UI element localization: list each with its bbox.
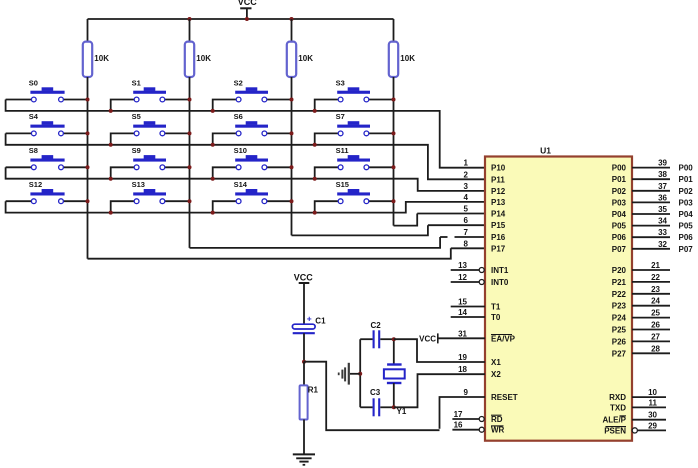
- pushbutton S2: [213, 78, 292, 111]
- svg-text:S2: S2: [234, 78, 243, 87]
- pin name P01: [612, 175, 627, 184]
- svg-text:P17: P17: [491, 244, 506, 253]
- pin name TXD: [610, 403, 626, 412]
- svg-text:S0: S0: [29, 78, 38, 87]
- pin 9 RESET lead: [440, 397, 486, 429]
- pushbutton S14: [213, 180, 292, 213]
- svg-text:7: 7: [464, 228, 469, 237]
- pin 21 lead: [632, 269, 670, 271]
- pin name WR: [491, 426, 505, 435]
- pin name P13: [491, 198, 506, 207]
- pin 23 lead: [632, 293, 670, 295]
- junction S11-column 4: [392, 165, 396, 169]
- svg-text:P13: P13: [491, 198, 506, 207]
- pushbutton S1: [111, 78, 190, 111]
- pin 36 number: [658, 193, 667, 202]
- junction S15 bus tap: [313, 211, 317, 215]
- pin 14 number: [458, 308, 467, 317]
- junction S2 bus tap: [211, 109, 215, 113]
- pin 31 EA/VP lead: [438, 337, 485, 339]
- pin name RD: [491, 415, 503, 424]
- pin 37 lead: [632, 190, 670, 192]
- svg-text:P14: P14: [491, 210, 506, 219]
- svg-text:S9: S9: [132, 146, 141, 155]
- net label P03: [679, 198, 694, 207]
- wire pin 5 lead: [417, 213, 485, 215]
- svg-text:P22: P22: [612, 290, 627, 299]
- pin 21 number: [651, 261, 660, 270]
- svg-text:S10: S10: [234, 146, 247, 155]
- svg-text:34: 34: [658, 217, 667, 226]
- pin 25 lead: [632, 317, 670, 319]
- wire row 2 bus to pin 2: [6, 133, 485, 179]
- wire column 3 vertical: [291, 77, 293, 235]
- svg-text:S5: S5: [132, 112, 141, 121]
- svg-text:16: 16: [454, 421, 463, 430]
- pin 14 T0 lead: [451, 316, 485, 318]
- pin 36 lead: [632, 201, 670, 203]
- svg-text:S8: S8: [29, 146, 38, 155]
- pin 33 lead: [632, 236, 670, 238]
- svg-text:Y1: Y1: [397, 407, 407, 416]
- net label P07: [679, 245, 694, 254]
- pin 29 number: [648, 421, 657, 430]
- junction S3 bus tap: [313, 109, 317, 113]
- svg-text:10K: 10K: [400, 54, 415, 63]
- svg-text:6: 6: [464, 216, 469, 225]
- pin 26 number: [651, 321, 660, 330]
- svg-text:S4: S4: [29, 112, 39, 121]
- svg-text:T1: T1: [491, 303, 501, 312]
- svg-text:P04: P04: [679, 210, 694, 219]
- pushbutton S5: [111, 112, 190, 145]
- junction S5-column 2: [188, 131, 192, 135]
- junction S9 bus tap: [109, 177, 113, 181]
- svg-text:19: 19: [458, 353, 467, 362]
- pin name P21: [612, 278, 627, 287]
- pin 22 number: [651, 273, 660, 282]
- IC U1 body (8051 MCU): [485, 146, 632, 441]
- pushbutton S9: [111, 146, 190, 179]
- svg-text:P16: P16: [491, 233, 506, 242]
- pin 27 number: [651, 332, 660, 341]
- svg-text:13: 13: [458, 261, 467, 270]
- svg-text:29: 29: [648, 421, 657, 430]
- resistor 10K (pull-up, column 4): [389, 19, 415, 77]
- svg-text:P06: P06: [612, 233, 627, 242]
- junction S9-column 2: [188, 165, 192, 169]
- svg-text:8: 8: [464, 239, 469, 248]
- svg-text:VCC: VCC: [294, 272, 314, 282]
- wire row 1 bus to pin 1: [6, 100, 485, 168]
- svg-text:1: 1: [464, 159, 469, 168]
- svg-text:P11: P11: [491, 175, 505, 184]
- ground (crystal network): [339, 363, 361, 385]
- svg-text:14: 14: [458, 308, 467, 317]
- svg-text:+: +: [307, 313, 312, 323]
- svg-text:3: 3: [464, 182, 469, 191]
- pin name P00: [612, 164, 627, 173]
- svg-text:27: 27: [651, 332, 660, 341]
- wire pin 6 lead: [428, 224, 485, 226]
- svg-text:RESET: RESET: [491, 393, 518, 402]
- svg-text:21: 21: [651, 261, 660, 270]
- junction S6-column 3: [290, 131, 294, 135]
- svg-text:12: 12: [458, 273, 467, 282]
- pin 17 number: [454, 410, 463, 419]
- svg-text:T0: T0: [491, 313, 501, 322]
- svg-text:S12: S12: [29, 180, 42, 189]
- pin 34 lead: [632, 225, 670, 227]
- junction S12-column 1: [86, 199, 90, 203]
- pin name P16: [491, 233, 506, 242]
- svg-text:36: 36: [658, 193, 667, 202]
- wire crystal left rail: [359, 339, 361, 407]
- pin 30 ALE/P lead: [632, 419, 666, 421]
- svg-text:15: 15: [458, 298, 467, 307]
- svg-text:33: 33: [658, 228, 667, 237]
- pin 3 number: [464, 182, 469, 191]
- pin 33 number: [658, 228, 667, 237]
- pin 35 number: [658, 205, 667, 214]
- svg-text:INT0: INT0: [491, 278, 509, 287]
- pin name P02: [612, 187, 627, 196]
- net label P05: [679, 222, 694, 231]
- svg-text:PSEN: PSEN: [604, 426, 626, 435]
- svg-text:P26: P26: [612, 337, 627, 346]
- svg-text:C2: C2: [371, 321, 382, 330]
- svg-text:32: 32: [658, 240, 667, 249]
- junction S11 bus tap: [313, 177, 317, 181]
- pin 38 number: [658, 170, 667, 179]
- svg-text:P25: P25: [612, 326, 627, 335]
- net label P02: [679, 187, 694, 196]
- pin name P26: [612, 337, 627, 346]
- resistor R1: [300, 362, 319, 455]
- pin 29 PSEN lead: [632, 428, 666, 433]
- wire row 4 bus to pin 4: [6, 201, 485, 212]
- resistor 10K (pull-up, column 1): [83, 19, 109, 77]
- pin 10 number: [648, 388, 657, 397]
- wire column 4 to pin 5: [394, 214, 418, 226]
- wire pin 7 lead (with gap): [440, 236, 485, 238]
- crystal Y1: [384, 339, 407, 416]
- junction S4-column 1: [86, 131, 90, 135]
- pin name RESET: [491, 393, 518, 402]
- svg-text:26: 26: [651, 321, 660, 330]
- pin name P10: [491, 164, 506, 173]
- pin 24 number: [651, 297, 660, 306]
- pin name P23: [612, 302, 627, 311]
- wire column 3 to pin 6: [292, 225, 428, 235]
- svg-text:28: 28: [651, 344, 660, 353]
- svg-text:VCC: VCC: [419, 334, 436, 343]
- resistor 10K (pull-up, column 2): [185, 19, 211, 77]
- power port VCC at pin 31: [419, 333, 438, 343]
- svg-text:P07: P07: [679, 245, 694, 254]
- pin name P07: [612, 245, 627, 254]
- pin 13 number: [458, 261, 467, 270]
- junction crystal ground tap: [358, 372, 362, 376]
- pin 19 number: [458, 353, 467, 362]
- pin name P27: [612, 349, 627, 358]
- svg-text:WR: WR: [491, 426, 505, 435]
- svg-text:P15: P15: [491, 221, 506, 230]
- svg-text:P01: P01: [612, 175, 627, 184]
- pin name RXD: [609, 393, 626, 402]
- svg-text:23: 23: [651, 285, 660, 294]
- pin name INT1: [491, 266, 509, 275]
- svg-text:VCC: VCC: [238, 0, 258, 7]
- pin name P04: [612, 210, 627, 219]
- junction crystal top node: [392, 337, 396, 341]
- svg-text:X1: X1: [491, 358, 501, 367]
- pin name P24: [612, 314, 627, 323]
- pin 28 number: [651, 344, 660, 353]
- svg-text:S1: S1: [132, 78, 141, 87]
- pin 37 number: [658, 182, 667, 191]
- svg-text:38: 38: [658, 170, 667, 179]
- pin 10 RXD lead: [632, 396, 666, 398]
- pin 27 lead: [632, 340, 670, 342]
- net label P06: [679, 233, 694, 242]
- svg-text:P27: P27: [612, 349, 627, 358]
- pin 31 number: [458, 329, 467, 338]
- junction S1-column 2: [188, 98, 192, 102]
- svg-text:P03: P03: [679, 198, 694, 207]
- wire crystal bottom node to pin 18 X2: [394, 374, 485, 407]
- svg-text:39: 39: [658, 159, 667, 168]
- junction S13 bus tap: [109, 211, 113, 215]
- svg-text:P01: P01: [679, 175, 694, 184]
- svg-text:30: 30: [648, 411, 657, 420]
- svg-text:10K: 10K: [298, 54, 313, 63]
- pin name P25: [612, 326, 627, 335]
- pin 18 number: [458, 365, 467, 374]
- svg-text:S7: S7: [336, 112, 345, 121]
- svg-text:10K: 10K: [196, 54, 211, 63]
- pin 32 number: [658, 240, 667, 249]
- junction S5 bus tap: [109, 143, 113, 147]
- junction S1 bus tap: [109, 109, 113, 113]
- junction rail-column3: [290, 17, 294, 21]
- junction S10 bus tap: [211, 177, 215, 181]
- pushbutton S10: [213, 146, 292, 179]
- pin 23 number: [651, 285, 660, 294]
- junction S7-column 4: [392, 131, 396, 135]
- svg-text:C3: C3: [370, 388, 381, 397]
- pin 2 number: [464, 170, 469, 179]
- pin 25 number: [651, 309, 660, 318]
- junction S8-column 1: [86, 165, 90, 169]
- pin 12 INT0 lead: [451, 280, 485, 285]
- pin name P03: [612, 198, 627, 207]
- junction S15-column 4: [392, 199, 396, 203]
- pin 8 number: [464, 239, 469, 248]
- pin 12 number: [458, 273, 467, 282]
- pin 7 number: [464, 228, 469, 237]
- svg-text:S13: S13: [132, 180, 145, 189]
- wire column 1 vertical: [87, 77, 89, 259]
- svg-text:P23: P23: [612, 302, 627, 311]
- pin 13 INT1 lead: [451, 268, 485, 273]
- pin 34 number: [658, 217, 667, 226]
- pin 6 number: [464, 216, 469, 225]
- pin name P20: [612, 266, 627, 275]
- pin 16 number: [454, 421, 463, 430]
- svg-text:X2: X2: [491, 370, 501, 379]
- svg-text:U1: U1: [540, 146, 551, 156]
- pin name P17: [491, 244, 506, 253]
- junction rail-column2: [188, 17, 192, 21]
- svg-text:INT1: INT1: [491, 266, 509, 275]
- svg-text:P00: P00: [679, 164, 694, 173]
- svg-text:P20: P20: [612, 266, 627, 275]
- svg-text:10: 10: [648, 388, 657, 397]
- junction S3-column 4: [392, 98, 396, 102]
- svg-text:RD: RD: [491, 415, 503, 424]
- svg-text:25: 25: [651, 309, 660, 318]
- pushbutton S12: [6, 180, 88, 204]
- resistor 10K (pull-up, column 3): [287, 19, 313, 77]
- pushbutton S3: [315, 78, 394, 111]
- svg-text:ALE/P: ALE/P: [602, 416, 626, 425]
- pin 11 TXD lead: [632, 406, 666, 408]
- pushbutton S4: [6, 112, 88, 136]
- wire column 2 vertical: [189, 77, 191, 248]
- svg-text:P03: P03: [612, 198, 627, 207]
- svg-text:18: 18: [458, 365, 467, 374]
- pin name P22: [612, 290, 627, 299]
- svg-text:P12: P12: [491, 187, 506, 196]
- junction S0-column 1: [86, 98, 90, 102]
- junction S10-column 3: [290, 165, 294, 169]
- svg-text:S3: S3: [336, 78, 345, 87]
- pin 30 number: [648, 411, 657, 420]
- pin name P06: [612, 233, 627, 242]
- wire column 1 to pin 8: [88, 248, 451, 258]
- power symbol VCC (reset circuit): [294, 272, 314, 324]
- pin 26 lead: [632, 329, 670, 331]
- pin 22 lead: [632, 281, 670, 283]
- pushbutton S11: [315, 146, 394, 179]
- capacitor C2: [360, 321, 394, 348]
- svg-text:S15: S15: [336, 180, 349, 189]
- net label P01: [679, 175, 694, 184]
- pin name P05: [612, 222, 627, 231]
- pin 39 number: [658, 159, 667, 168]
- capacitor C3: [360, 388, 394, 416]
- pin name X1: [491, 358, 501, 367]
- svg-text:9: 9: [464, 388, 469, 397]
- svg-text:RXD: RXD: [609, 393, 626, 402]
- wire column 4 vertical: [393, 77, 395, 226]
- svg-text:4: 4: [464, 193, 469, 202]
- junction S14-column 3: [290, 199, 294, 203]
- pin 32 lead: [632, 248, 670, 250]
- wire column 2 to pin 7: [190, 237, 441, 248]
- svg-text:24: 24: [651, 297, 660, 306]
- svg-text:P24: P24: [612, 314, 627, 323]
- wire row 3 bus to pin 3: [6, 167, 485, 191]
- pin name PSEN: [604, 426, 626, 435]
- pin 1 number: [464, 159, 469, 168]
- junction C1/R1/RESET node: [302, 360, 306, 364]
- pin name EA/VP: [491, 334, 516, 343]
- junction S14 bus tap: [211, 211, 215, 215]
- pin 24 lead: [632, 305, 670, 307]
- svg-text:10K: 10K: [94, 54, 109, 63]
- svg-text:P05: P05: [679, 222, 694, 231]
- pushbutton S13: [111, 180, 190, 213]
- ground (below R1): [293, 454, 315, 464]
- pin 35 lead: [632, 213, 670, 215]
- svg-text:R1: R1: [308, 386, 319, 395]
- pin 15 T1 lead: [451, 306, 485, 308]
- pin name T0: [491, 313, 501, 322]
- svg-text:S11: S11: [336, 146, 349, 155]
- svg-text:P00: P00: [612, 164, 627, 173]
- pin 5 number: [464, 205, 469, 214]
- capacitor C1 (electrolytic): [292, 313, 326, 361]
- svg-text:P06: P06: [679, 233, 694, 242]
- svg-text:11: 11: [649, 398, 658, 407]
- pushbutton S0: [6, 78, 88, 102]
- pin name P11: [491, 175, 505, 184]
- svg-text:S14: S14: [234, 180, 248, 189]
- junction S2-column 3: [290, 98, 294, 102]
- svg-text:P05: P05: [612, 222, 627, 231]
- pin name P15: [491, 221, 506, 230]
- svg-text:C1: C1: [315, 317, 326, 326]
- svg-text:TXD: TXD: [610, 403, 626, 412]
- junction S6 bus tap: [211, 143, 215, 147]
- svg-text:P07: P07: [612, 245, 627, 254]
- svg-text:37: 37: [658, 182, 667, 191]
- pin 4 number: [464, 193, 469, 202]
- svg-text:P02: P02: [612, 187, 627, 196]
- svg-text:5: 5: [464, 205, 469, 214]
- wire VCC top rail: [88, 18, 394, 20]
- wire crystal top node to pin 19 X1: [394, 339, 485, 362]
- pin 11 number: [649, 398, 658, 407]
- svg-text:P02: P02: [679, 187, 694, 196]
- junction crystal bottom node: [392, 405, 396, 409]
- svg-text:2: 2: [464, 170, 469, 179]
- pin name ALE/P: [602, 416, 626, 425]
- net label P04: [679, 210, 694, 219]
- pin name X2: [491, 370, 501, 379]
- pin 28 lead: [632, 352, 670, 354]
- svg-text:22: 22: [651, 273, 660, 282]
- pushbutton S7: [315, 112, 394, 145]
- pin 38 lead: [632, 178, 670, 180]
- pushbutton S6: [213, 112, 292, 145]
- pin name P12: [491, 187, 506, 196]
- net label P00: [679, 164, 694, 173]
- pin 15 number: [458, 298, 467, 307]
- wire RESET node to pin 9: [304, 362, 440, 431]
- pushbutton S15: [315, 180, 394, 213]
- svg-text:31: 31: [458, 329, 467, 338]
- pin 17 RD lead: [452, 417, 484, 422]
- pin name P14: [491, 210, 506, 219]
- pin 16 WR lead: [452, 427, 484, 432]
- pin name INT0: [491, 278, 509, 287]
- svg-text:35: 35: [658, 205, 667, 214]
- pushbutton S8: [6, 146, 88, 170]
- junction S7 bus tap: [313, 143, 317, 147]
